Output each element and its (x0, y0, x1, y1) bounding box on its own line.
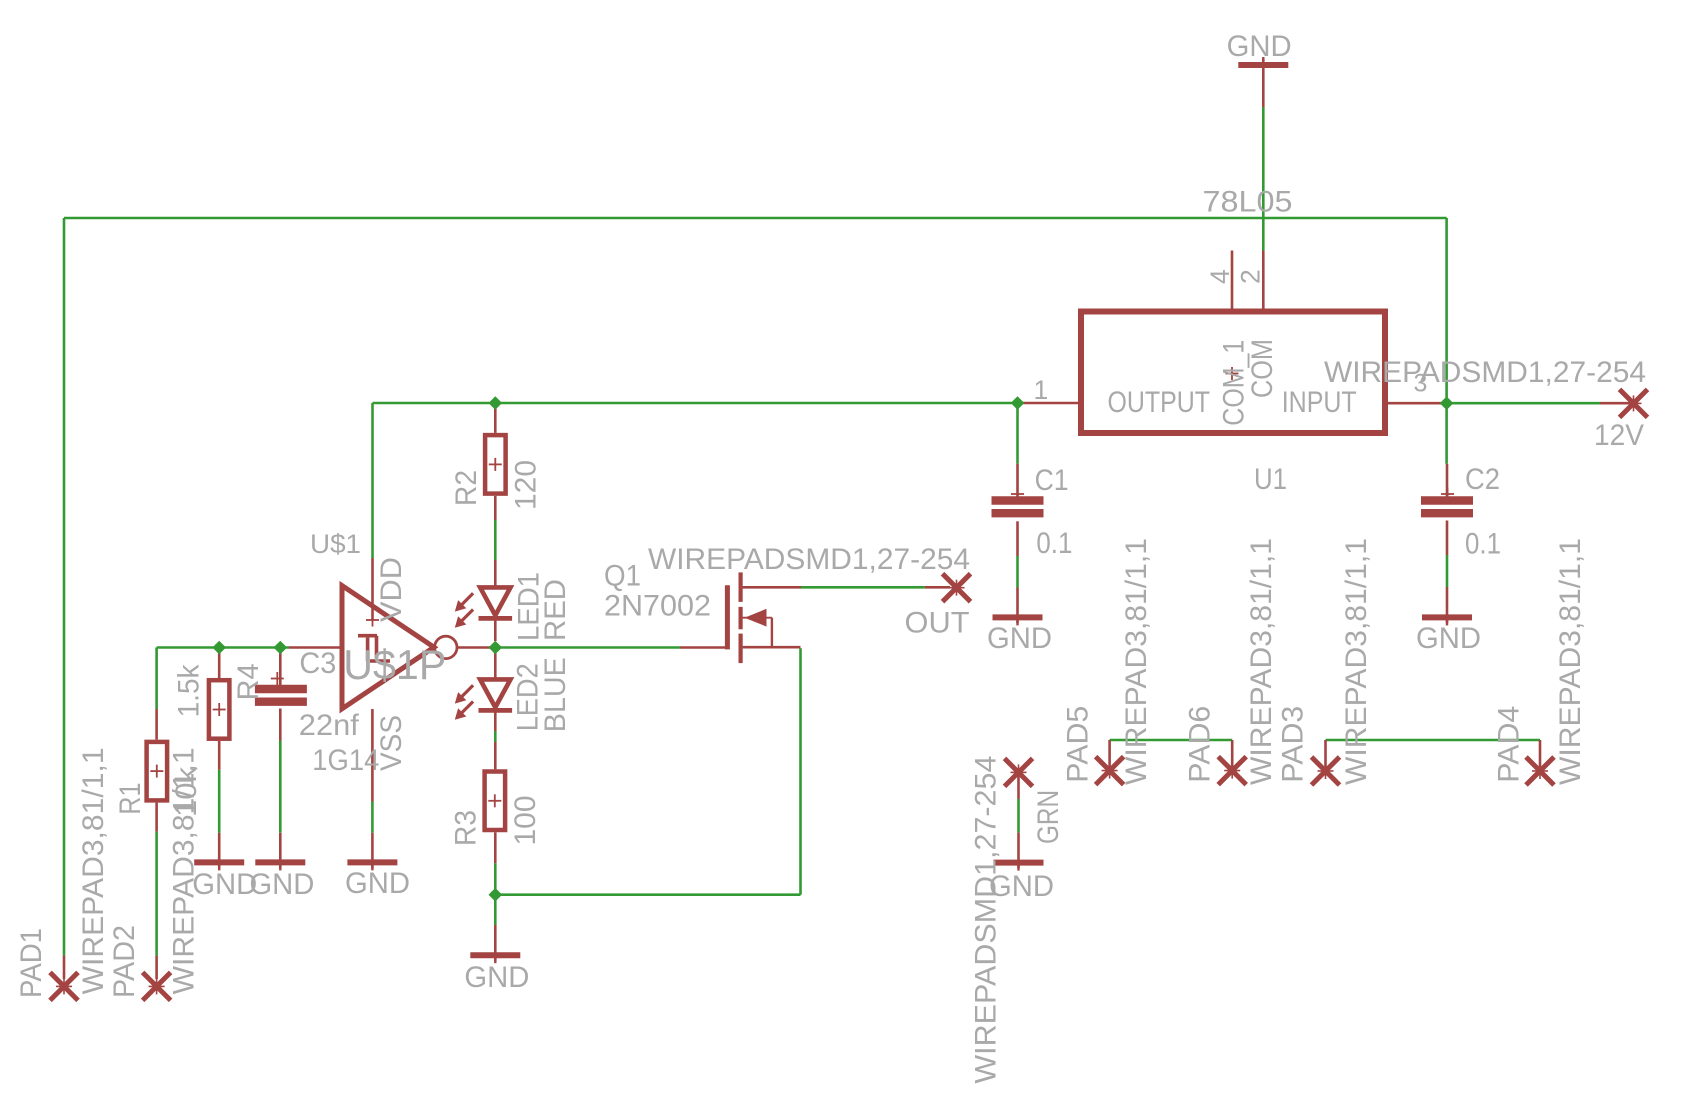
svg-text:WIREPAD3,81/1,1: WIREPAD3,81/1,1 (1245, 538, 1278, 785)
svg-text:R4: R4 (232, 663, 265, 700)
svg-text:120: 120 (510, 460, 543, 510)
svg-text:2: 2 (1236, 269, 1266, 284)
svg-text:Q1: Q1 (604, 560, 641, 593)
svg-text:R1: R1 (114, 783, 147, 815)
svg-text:INPUT: INPUT (1282, 386, 1357, 419)
svg-text:22nf: 22nf (299, 709, 360, 742)
svg-text:WIREPADSMD1,27-254: WIREPADSMD1,27-254 (1324, 356, 1646, 389)
svg-text:RED: RED (539, 579, 572, 641)
svg-text:WIREPAD3,81/1,1: WIREPAD3,81/1,1 (1120, 538, 1153, 785)
svg-text:100: 100 (509, 796, 542, 846)
svg-text:0.1: 0.1 (1465, 528, 1501, 561)
svg-text:U$1: U$1 (310, 529, 361, 559)
svg-text:1.5k: 1.5k (172, 663, 205, 717)
svg-text:PAD2: PAD2 (108, 925, 141, 998)
svg-text:3: 3 (1414, 370, 1428, 398)
svg-text:PAD3: PAD3 (1277, 706, 1310, 783)
svg-text:VDD: VDD (375, 557, 408, 622)
svg-text:PAD4: PAD4 (1492, 706, 1525, 783)
svg-text:OUT: OUT (905, 607, 970, 640)
svg-text:78L05: 78L05 (1203, 186, 1293, 219)
svg-text:PAD6: PAD6 (1183, 706, 1216, 783)
svg-text:BLUE: BLUE (539, 657, 572, 732)
svg-text:R2: R2 (450, 470, 483, 506)
svg-text:4: 4 (1205, 269, 1235, 284)
svg-text:GND: GND (987, 622, 1052, 655)
svg-text:C1: C1 (1035, 464, 1069, 497)
svg-text:OUTPUT: OUTPUT (1108, 386, 1211, 419)
svg-text:GND: GND (192, 868, 257, 901)
svg-text:0.1: 0.1 (1036, 527, 1072, 560)
svg-text:VSS: VSS (375, 715, 408, 771)
svg-text:WIREPADSMD1,27-254: WIREPADSMD1,27-254 (648, 543, 970, 576)
svg-text:GND: GND (1227, 30, 1292, 63)
svg-text:PAD1: PAD1 (15, 928, 48, 998)
svg-text:WIREPAD3,81/1,1: WIREPAD3,81/1,1 (77, 747, 110, 994)
svg-text:2N7002: 2N7002 (604, 590, 711, 623)
svg-text:1G14: 1G14 (312, 744, 379, 777)
svg-text:WIREPAD3,81/1,1: WIREPAD3,81/1,1 (1340, 538, 1373, 785)
svg-text:WIREPAD3,81/1,1: WIREPAD3,81/1,1 (168, 747, 201, 994)
svg-text:U$1P: U$1P (343, 641, 446, 688)
svg-text:GND: GND (1416, 622, 1481, 655)
svg-text:C3: C3 (299, 647, 336, 680)
svg-text:U1: U1 (1254, 463, 1287, 496)
svg-text:GND: GND (464, 961, 529, 994)
svg-text:COM: COM (1246, 339, 1279, 398)
svg-text:GRN: GRN (1032, 790, 1065, 844)
svg-text:R3: R3 (450, 810, 483, 846)
svg-text:PAD5: PAD5 (1061, 706, 1094, 783)
svg-text:WIREPADSMD1,27-254: WIREPADSMD1,27-254 (970, 756, 1003, 1084)
svg-text:12V: 12V (1594, 419, 1644, 452)
svg-text:1: 1 (1034, 375, 1049, 405)
svg-text:WIREPAD3,81/1,1: WIREPAD3,81/1,1 (1554, 538, 1587, 785)
svg-text:GND: GND (249, 868, 314, 901)
svg-text:C2: C2 (1465, 463, 1500, 496)
svg-text:GND: GND (345, 867, 410, 900)
